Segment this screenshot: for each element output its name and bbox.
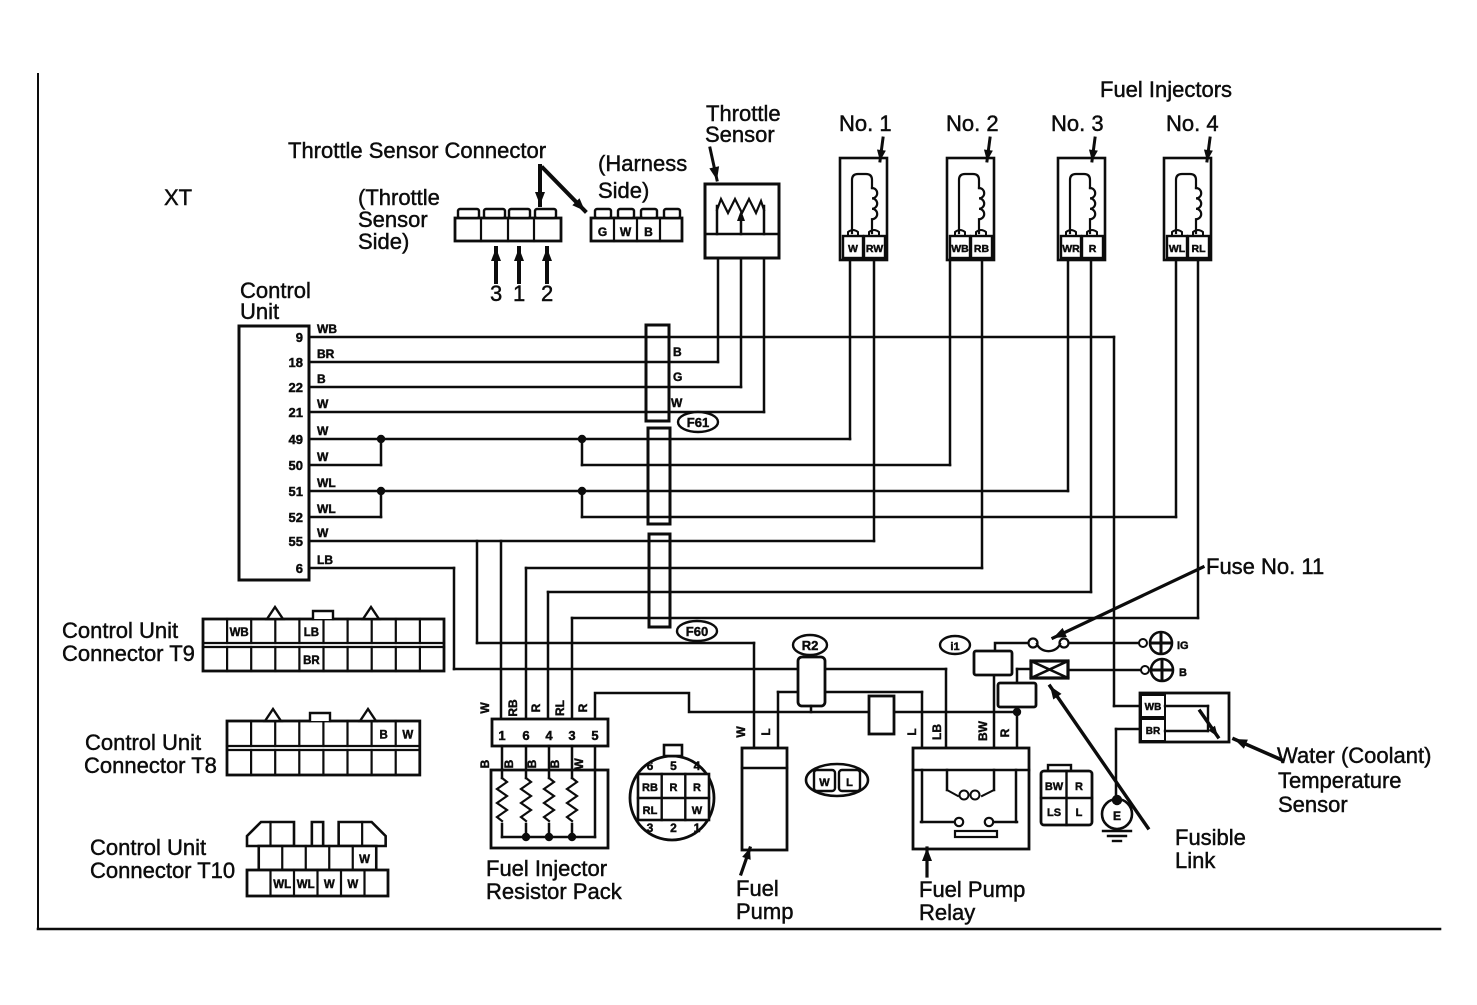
svg-text:WL: WL [1169,243,1186,255]
svg-text:51: 51 [289,484,303,499]
svg-text:Side): Side) [598,178,649,203]
svg-text:F61: F61 [687,415,709,430]
svg-text:BR: BR [303,655,320,667]
svg-text:21: 21 [289,405,303,420]
svg-text:No. 3: No. 3 [1051,111,1104,136]
svg-text:B: B [548,759,562,768]
svg-text:R2: R2 [802,638,819,653]
svg-text:BR: BR [1146,726,1161,737]
svg-text:Connector T10: Connector T10 [90,858,235,883]
svg-text:RL: RL [553,700,567,716]
svg-text:Fuel: Fuel [736,876,779,901]
svg-text:52: 52 [289,510,303,525]
svg-text:50: 50 [289,458,303,473]
svg-text:3: 3 [568,728,575,743]
svg-text:BR: BR [317,347,335,361]
svg-text:WL: WL [317,476,336,490]
svg-text:2: 2 [670,821,677,835]
svg-text:R: R [576,703,590,712]
svg-text:B: B [478,759,492,768]
svg-text:B: B [1179,667,1187,679]
svg-text:3: 3 [490,281,502,306]
svg-text:Pump: Pump [736,899,793,924]
svg-text:W: W [671,396,683,410]
svg-text:WR: WR [1062,243,1080,255]
svg-text:WB: WB [317,322,337,336]
svg-text:i1: i1 [950,641,959,653]
svg-text:1: 1 [513,281,525,306]
svg-text:BW: BW [976,720,990,741]
svg-text:L: L [846,777,853,789]
svg-text:(Harness: (Harness [598,151,687,176]
svg-text:B: B [379,730,387,742]
svg-text:No. 2: No. 2 [946,111,999,136]
svg-text:4: 4 [545,728,553,743]
svg-text:Link: Link [1175,848,1216,873]
svg-text:B: B [525,759,539,768]
svg-text:Temperature: Temperature [1278,768,1402,793]
svg-text:B: B [317,372,326,386]
svg-text:RB: RB [974,243,990,255]
svg-text:W: W [848,243,858,255]
svg-text:WL: WL [317,502,336,516]
svg-text:Fuel Pump: Fuel Pump [919,877,1025,902]
svg-text:Control Unit: Control Unit [85,730,201,755]
svg-text:6: 6 [522,728,529,743]
svg-text:Fuel Injectors: Fuel Injectors [1100,77,1232,102]
svg-text:R: R [529,703,543,712]
svg-text:BW: BW [1045,781,1064,793]
svg-text:WB: WB [951,243,969,255]
svg-text:4: 4 [694,759,701,773]
svg-text:No. 4: No. 4 [1166,111,1219,136]
svg-text:Resistor Pack: Resistor Pack [486,879,623,904]
svg-text:Control Unit: Control Unit [90,835,206,860]
svg-text:W: W [572,758,586,770]
svg-text:49: 49 [289,432,303,447]
svg-text:W: W [317,450,329,464]
svg-text:WL: WL [273,879,291,891]
svg-text:Fuse No. 11: Fuse No. 11 [1206,554,1324,579]
svg-text:Throttle Sensor Connector: Throttle Sensor Connector [288,138,546,163]
svg-text:Sensor: Sensor [1278,792,1348,817]
svg-text:RL: RL [643,805,658,817]
svg-text:R: R [998,728,1012,737]
svg-text:5: 5 [670,759,677,773]
svg-text:WB: WB [1145,702,1162,713]
svg-text:Fusible: Fusible [1175,825,1246,850]
svg-text:W: W [359,854,370,866]
svg-text:Connector T8: Connector T8 [84,753,217,778]
svg-text:LB: LB [304,627,319,639]
svg-text:G: G [598,225,607,239]
svg-text:IG: IG [1177,640,1189,652]
svg-text:G: G [673,370,682,384]
svg-text:Relay: Relay [919,900,975,925]
svg-text:B: B [673,345,682,359]
svg-text:22: 22 [289,380,303,395]
svg-text:6: 6 [296,561,303,576]
svg-text:RW: RW [866,243,883,255]
svg-text:W: W [819,777,830,789]
svg-text:1: 1 [694,821,701,835]
svg-text:Control Unit: Control Unit [62,618,178,643]
svg-text:RL: RL [1192,243,1207,255]
svg-text:B: B [644,225,653,239]
svg-text:R: R [693,782,701,794]
svg-text:Water (Coolant): Water (Coolant) [1277,743,1431,768]
svg-text:No. 1: No. 1 [839,111,892,136]
svg-text:W: W [324,879,335,891]
svg-text:6: 6 [647,759,654,773]
svg-text:WL: WL [297,879,315,891]
svg-text:L: L [905,728,919,735]
svg-text:R: R [1089,243,1097,255]
svg-text:Sensor: Sensor [705,122,775,147]
svg-text:L: L [1076,807,1083,819]
svg-text:Fuel Injector: Fuel Injector [486,856,607,881]
svg-text:W: W [734,726,748,738]
svg-text:W: W [692,805,703,817]
svg-text:3: 3 [647,821,654,835]
svg-text:Connector T9: Connector T9 [62,641,195,666]
svg-text:L: L [759,728,773,735]
svg-text:B: B [502,759,516,768]
svg-text:18: 18 [289,355,303,370]
svg-text:XT: XT [164,185,192,210]
svg-text:9: 9 [296,330,303,345]
svg-text:E: E [1113,809,1121,823]
svg-text:W: W [317,526,329,540]
svg-text:W: W [317,424,329,438]
svg-text:55: 55 [289,534,303,549]
svg-text:W: W [402,730,413,742]
svg-text:RB: RB [642,782,658,794]
svg-text:W: W [620,225,632,239]
svg-text:LS: LS [1047,807,1061,819]
svg-text:1: 1 [498,728,505,743]
svg-text:Unit: Unit [240,299,279,324]
svg-text:F60: F60 [686,624,708,639]
svg-text:2: 2 [541,281,553,306]
svg-text:LB: LB [317,553,333,567]
svg-text:W: W [478,702,492,714]
svg-text:W: W [347,879,358,891]
svg-text:R: R [670,782,678,794]
svg-text:WB: WB [230,627,249,639]
svg-text:W: W [317,397,329,411]
svg-text:LB: LB [930,724,944,740]
svg-text:R: R [1075,781,1083,793]
svg-text:5: 5 [591,728,598,743]
svg-text:Side): Side) [358,229,409,254]
svg-text:RB: RB [506,699,520,717]
